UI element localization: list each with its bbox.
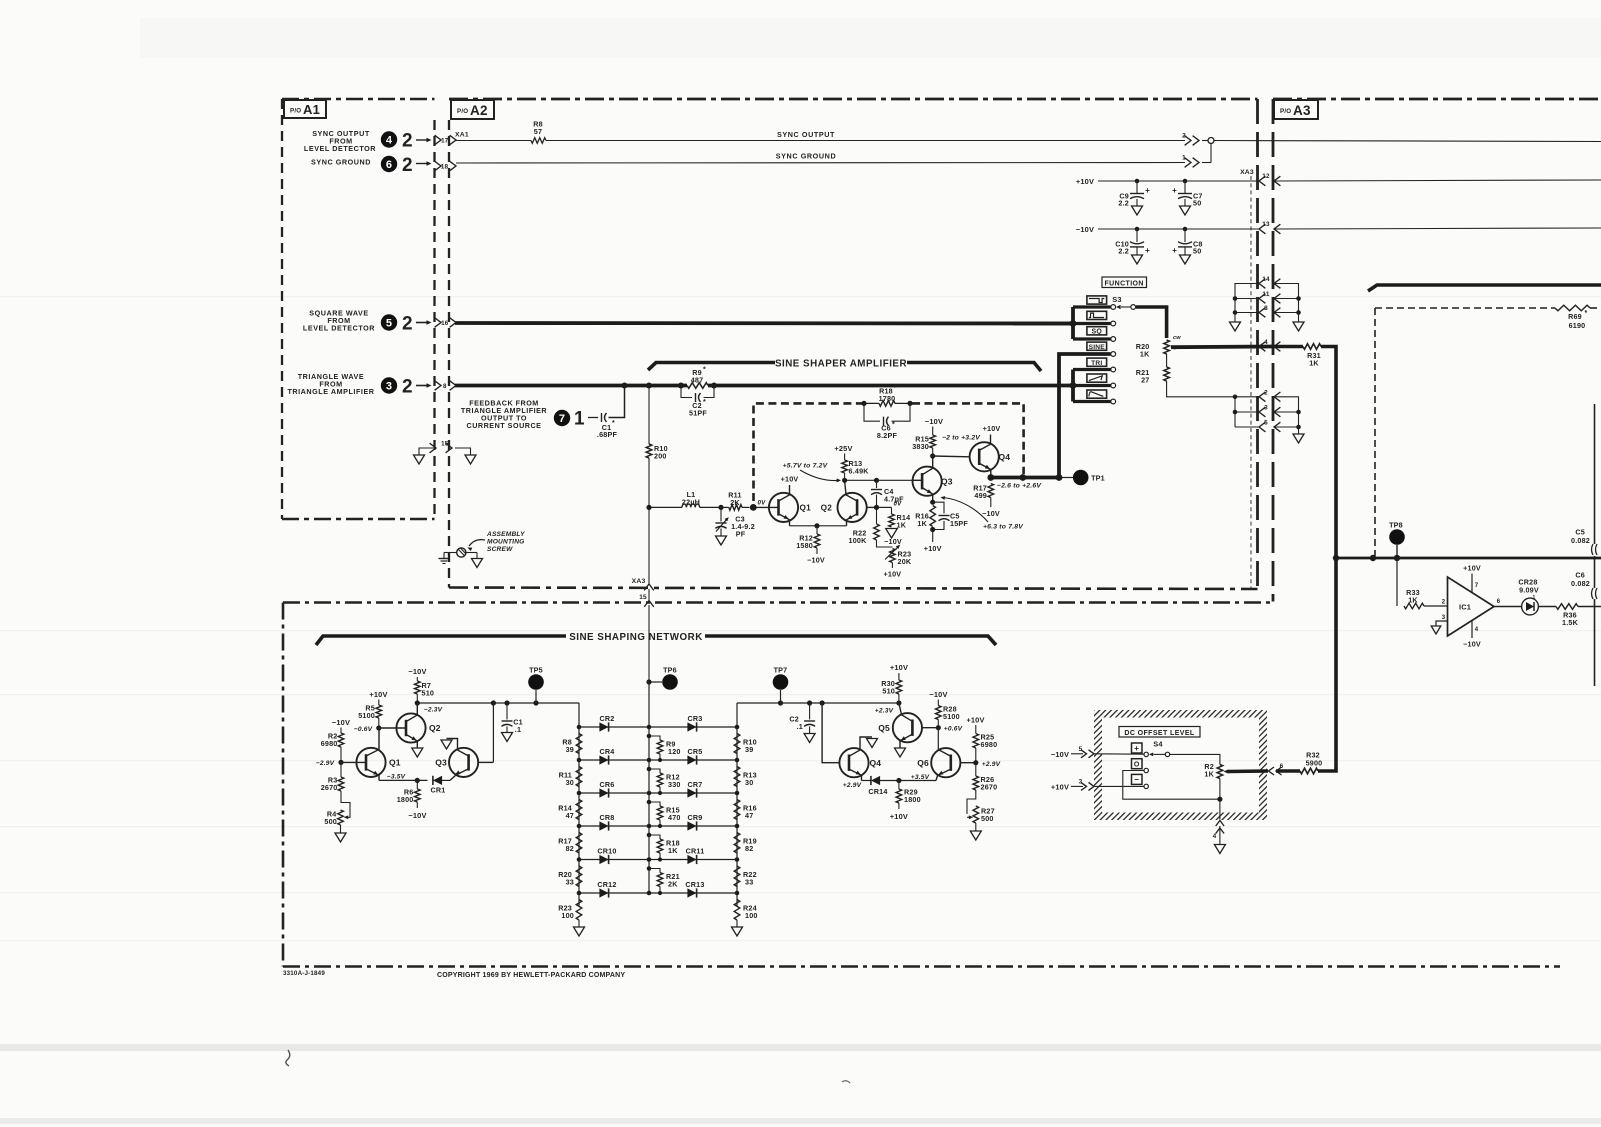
resistor R7 [415, 677, 435, 703]
svg-text:−10V: −10V [982, 509, 1000, 518]
wire ladder right column [736, 703, 738, 906]
resistor R26 [973, 763, 997, 792]
svg-text:SINE: SINE [1089, 344, 1106, 351]
svg-text:CR3: CR3 [688, 714, 703, 723]
wire ladder row 4 [577, 824, 740, 829]
wire square bus to contacts 1-3 [1013, 307, 1111, 339]
ground (pins14-11-8 right) [1293, 322, 1304, 331]
transistor Q3 (shaper) [913, 456, 953, 502]
wire sine bus to contact 4 [1059, 354, 1111, 478]
label S4 [1153, 740, 1163, 749]
svg-text:1K: 1K [917, 519, 927, 528]
big numeral 2 (square wave) [402, 314, 413, 335]
svg-text:TP6: TP6 [663, 666, 677, 675]
capacitor C6 (0.082, cut) [1571, 571, 1597, 600]
resistor R17 (ladder left) [558, 833, 582, 854]
switch S4 plus box [1132, 743, 1143, 753]
svg-text:5100: 5100 [358, 711, 375, 720]
svg-text:1800: 1800 [904, 795, 921, 804]
svg-text:−2 to +3.2V: −2 to +3.2V [942, 435, 981, 442]
svg-text:57: 57 [534, 127, 542, 136]
label +2.9V (Q6) [982, 761, 1001, 768]
ground (C9) [1132, 206, 1143, 215]
svg-text:+10V: +10V [1463, 564, 1481, 573]
connector pin 11 [1259, 291, 1280, 303]
svg-text:COPYRIGHT 1969 BY HEWLETT-PACK: COPYRIGHT 1969 BY HEWLETT-PACKARD COMPAN… [437, 972, 625, 979]
page-edge block border [1594, 404, 1596, 686]
svg-text:.68PF: .68PF [597, 430, 618, 439]
svg-text:4: 4 [1475, 627, 1479, 633]
wire ladder row 3 [577, 791, 740, 796]
diode CR9 [687, 813, 702, 831]
svg-text:CR11: CR11 [686, 847, 705, 856]
svg-text:+: + [1145, 186, 1150, 195]
svg-text:1K: 1K [1140, 350, 1150, 359]
svg-text:LEVEL DETECTOR: LEVEL DETECTOR [304, 144, 376, 153]
connector pin 8 [1259, 305, 1280, 317]
svg-text:+10V: +10V [781, 475, 799, 484]
diode CR7 [687, 780, 702, 798]
icon S3 position 4 (SINE) [1087, 342, 1107, 351]
contact S3-4 [1111, 352, 1116, 357]
svg-text:+: + [1172, 246, 1177, 255]
big numeral 2 (sync output) [402, 131, 413, 152]
capacitor C3 (variable) [715, 507, 754, 538]
flag 5 sheet-ref [381, 314, 397, 330]
svg-text:+5.7V to 7.2V: +5.7V to 7.2V [783, 463, 829, 470]
resistor R22 (ladder right) [734, 866, 757, 887]
resistor R14 (ladder left) [558, 800, 582, 821]
label 0V (Q2 base) [894, 501, 903, 508]
svg-text:11: 11 [1262, 291, 1269, 298]
svg-text:LEVEL DETECTOR: LEVEL DETECTOR [303, 324, 375, 333]
svg-text:4: 4 [386, 134, 393, 146]
wire pins14-11-8 right bracket [1274, 284, 1301, 323]
svg-text:1K: 1K [1309, 359, 1319, 368]
svg-text:+2.3V: +2.3V [875, 708, 894, 715]
svg-text:Q5: Q5 [878, 723, 890, 733]
svg-text:1K: 1K [1204, 770, 1214, 779]
wire triangle wave bus [455, 383, 1073, 389]
label -10V (S4 +) [1051, 750, 1069, 759]
label +10V (S4 -) [1051, 783, 1069, 792]
svg-text:33: 33 [745, 878, 753, 887]
diode CR8 [599, 813, 614, 831]
svg-text:0.082: 0.082 [1571, 579, 1590, 588]
wire Q1net collector [378, 727, 380, 729]
diode CR28 [1494, 578, 1556, 615]
svg-text:50: 50 [1193, 247, 1201, 256]
svg-text:Q3: Q3 [435, 758, 447, 768]
resistor R12 (ladder center) [647, 767, 681, 795]
resistor R13 (ladder right) [734, 767, 757, 788]
wire sync ground [456, 152, 1185, 164]
diode CR11 [686, 847, 705, 865]
contact S3-7 [1111, 399, 1116, 404]
label +10V (R25) [966, 716, 984, 725]
wire R16 to +10V [924, 527, 942, 553]
contact S3-5 [1111, 367, 1116, 372]
label +2.9V (Q4) [843, 782, 862, 789]
svg-text:2: 2 [1264, 389, 1268, 396]
svg-text:5100: 5100 [943, 712, 960, 721]
svg-text:P/O: P/O [457, 108, 468, 115]
svg-text:1: 1 [574, 409, 585, 430]
resistor R20 (ladder left) [558, 866, 582, 887]
wire ladder row 1 [577, 725, 740, 730]
resistor R2 (network) [321, 728, 344, 766]
svg-text:1800: 1800 [397, 795, 414, 804]
svg-text:2: 2 [402, 314, 413, 335]
wire pins2-3-5 right bracket [1274, 397, 1301, 434]
resistor R23 (adj) [877, 540, 912, 579]
capacitor C2 (51PF) [681, 386, 714, 418]
svg-text:+10V: +10V [1076, 177, 1094, 186]
capacitor C10 [1115, 229, 1150, 256]
svg-text:2K: 2K [730, 498, 740, 507]
contact S4 - [1144, 784, 1148, 788]
capacitor C6 (8.2PF) [864, 403, 910, 440]
capacitor C9 [1118, 181, 1150, 208]
svg-text:S4: S4 [1153, 740, 1163, 749]
icon S3 position 2 (pulse) [1087, 311, 1107, 319]
feedback path (dashed) [754, 403, 1024, 501]
resistor R9 (ladder center) [647, 734, 681, 762]
ground (pins2-3-5) [1293, 434, 1304, 443]
wire sync output to A3 [1214, 141, 1601, 142]
wire ladder center column [648, 682, 650, 893]
wire emitter row (network left) [379, 778, 428, 783]
wire ladder row 6 [577, 891, 740, 896]
svg-text:1K: 1K [1408, 596, 1418, 605]
diode CR6 [599, 780, 614, 798]
svg-text:120: 120 [668, 747, 681, 756]
op-amp IC1 [1442, 577, 1501, 636]
connector pin 15 (XA3) [632, 578, 654, 680]
capacitor C5 (0.082, cut) [1571, 528, 1597, 556]
resistor R5 [358, 700, 381, 731]
resistor R4 (adj) [324, 791, 350, 833]
svg-text:XA3: XA3 [1240, 169, 1254, 176]
svg-text:*: * [703, 399, 706, 406]
switch S4 zero box [1132, 759, 1143, 769]
svg-text:CR14: CR14 [868, 787, 887, 796]
svg-text:47: 47 [566, 811, 574, 820]
svg-text:1580: 1580 [796, 541, 813, 550]
switch S4 minus box [1132, 774, 1143, 784]
svg-text:+10V: +10V [890, 663, 908, 672]
wire flag4 to pin17 [416, 138, 432, 143]
svg-text:7: 7 [559, 413, 565, 425]
connector pin 14 [1259, 276, 1280, 288]
connector pin 17 [435, 135, 456, 145]
capacitor C8 [1172, 229, 1203, 256]
svg-text:CR13: CR13 [685, 880, 704, 889]
resistor R24 (ladder right bottom) [734, 900, 757, 928]
label -2.9V [316, 760, 335, 767]
svg-text:12: 12 [1262, 173, 1270, 180]
resistor R31 [1274, 344, 1321, 368]
svg-text:Q4: Q4 [999, 452, 1011, 462]
svg-text:1: 1 [1533, 595, 1536, 601]
svg-text:*: * [894, 385, 897, 392]
svg-text:CR2: CR2 [600, 714, 615, 723]
svg-text:Q2: Q2 [429, 723, 441, 733]
svg-text:S3: S3 [1112, 295, 1121, 304]
svg-text:3: 3 [1264, 405, 1268, 412]
wire R21 to pin2 bracket [1167, 381, 1235, 397]
transistor Q6 (network) [917, 748, 976, 780]
label +10V rail [1076, 177, 1094, 186]
svg-text:FUNCTION: FUNCTION [1105, 280, 1144, 287]
resistor R14 [877, 507, 911, 529]
svg-text:51PF: 51PF [689, 409, 707, 418]
svg-text:SINE SHAPING NETWORK: SINE SHAPING NETWORK [569, 632, 703, 643]
wiper S3 [1116, 305, 1136, 310]
big numeral 2 (sync ground) [402, 155, 413, 176]
svg-text:100: 100 [561, 911, 574, 920]
wire ladder row 5 [577, 857, 740, 862]
resistor R33 [1404, 588, 1448, 609]
label +3.5V [911, 774, 930, 781]
resistor R9 [687, 367, 708, 389]
resistor R69 [1555, 305, 1590, 330]
svg-text:22µH: 22µH [682, 497, 700, 506]
label sync output from level detector [304, 129, 376, 153]
svg-text:3: 3 [386, 380, 392, 392]
svg-text:8: 8 [1264, 305, 1268, 312]
svg-text:+0.6V: +0.6V [944, 726, 963, 733]
icon S3 position 6 (ramp up) [1087, 374, 1107, 382]
svg-text:CR6: CR6 [600, 780, 615, 789]
resistor R19 (ladder right) [734, 833, 757, 854]
transistor Q4 (network) [822, 703, 881, 781]
svg-text:Q4: Q4 [870, 758, 882, 768]
resistor R30 [881, 673, 901, 703]
svg-text:TP8: TP8 [1389, 521, 1403, 530]
label P/O A1 [284, 100, 326, 118]
svg-text:SYNC OUTPUT: SYNC OUTPUT [777, 130, 835, 139]
svg-text:Q1: Q1 [389, 758, 401, 768]
wire IC1 pin4 -10V [1463, 621, 1481, 649]
svg-text:CR8: CR8 [600, 813, 615, 822]
svg-text:−0.6V: −0.6V [354, 726, 373, 733]
wire S4 O to R2 bottom [1123, 771, 1220, 800]
wire pin13 to right edge [1274, 228, 1601, 229]
svg-text:R69: R69 [1568, 312, 1582, 321]
svg-text:2: 2 [402, 155, 413, 176]
svg-text:1780: 1780 [879, 394, 896, 403]
svg-text:SYNC GROUND: SYNC GROUND [776, 152, 837, 161]
resistor R21 [1136, 354, 1170, 385]
svg-text:CR10: CR10 [597, 847, 616, 856]
resistor R22 [849, 507, 880, 545]
connector pin 3 (S4) [1071, 779, 1144, 791]
wire IC1 pin7 +10V [1463, 564, 1481, 593]
label feedback from triangle amplifier [461, 399, 548, 431]
wire +10V rail [1098, 179, 1259, 184]
svg-text:TRIANGLE AMPLIFIER: TRIANGLE AMPLIFIER [287, 387, 374, 396]
label square wave from level detector [303, 309, 375, 333]
connector pin 13 [1259, 221, 1280, 234]
wire sync output [546, 130, 1185, 141]
svg-text:Q1: Q1 [800, 504, 812, 513]
label +5.7V to 7.2V [783, 463, 841, 483]
connector pin 16 [435, 318, 456, 328]
svg-text:+10V: +10V [966, 716, 984, 725]
svg-text:13: 13 [1262, 221, 1270, 228]
svg-text:P/O: P/O [1280, 108, 1291, 115]
svg-text:O: O [1134, 762, 1140, 769]
svg-text:39: 39 [745, 745, 753, 754]
connector pin 5 [1259, 420, 1280, 432]
resistor R36 [1556, 604, 1601, 627]
label sync ground [311, 158, 371, 167]
wire ladder row 2 [577, 758, 740, 763]
connector pin 8 (XA1) [435, 381, 456, 391]
wire pin12 to right edge [1274, 180, 1601, 181]
svg-text:2670: 2670 [321, 783, 338, 792]
svg-text:100: 100 [745, 911, 758, 920]
icon S3 position 5 (TRI) [1087, 358, 1107, 367]
svg-text:−10V: −10V [1051, 750, 1069, 759]
svg-text:+10V: +10V [884, 570, 902, 579]
svg-text:−2.6 to +2.6V: −2.6 to +2.6V [997, 483, 1042, 490]
svg-text:6.49K: 6.49K [849, 467, 870, 476]
ground (C7) [1180, 206, 1191, 215]
svg-text:0V: 0V [758, 500, 767, 507]
feedback box (right, dashed) [1375, 308, 1601, 556]
svg-text:82: 82 [745, 844, 753, 853]
svg-text:*: * [892, 422, 895, 429]
wiper S4 [1149, 752, 1170, 756]
svg-text:510: 510 [882, 687, 895, 696]
svg-text:CR7: CR7 [688, 780, 703, 789]
svg-text:6: 6 [1280, 763, 1284, 770]
diode CR3 [687, 714, 702, 732]
resistor R16 [915, 500, 935, 528]
wire square wave bus [455, 321, 1073, 325]
svg-text:PF: PF [736, 530, 746, 539]
wire TP8 to R33 [1396, 558, 1398, 606]
svg-text:17: 17 [441, 137, 449, 144]
svg-text:TP5: TP5 [529, 666, 543, 675]
transistor Q1 (network) [341, 728, 401, 780]
svg-text:+10V: +10V [890, 812, 908, 821]
ground (ladder left) [574, 927, 585, 936]
contact S3-2 [1111, 321, 1116, 326]
resistor R8 (ladder left) [562, 734, 581, 755]
wire ladder left column [578, 727, 580, 906]
svg-text:6190: 6190 [1569, 321, 1586, 330]
wire triangle bus to contacts 5-7 [1070, 370, 1111, 402]
svg-text:+10V: +10V [983, 424, 1001, 433]
svg-text:−10V: −10V [1463, 640, 1481, 649]
connector pin 4 [1259, 339, 1280, 351]
svg-text:18: 18 [441, 164, 449, 171]
label -2 to +3.2V [942, 435, 981, 442]
icon S3 position 3 (SQ) [1087, 327, 1107, 336]
svg-text:7: 7 [1475, 583, 1479, 589]
svg-text:SINE SHAPER AMPLIFIER: SINE SHAPER AMPLIFIER [775, 359, 907, 370]
connector pin 15 side grounds [414, 448, 477, 464]
svg-text:20K: 20K [898, 557, 912, 566]
svg-text:15: 15 [639, 594, 647, 601]
svg-text:1K: 1K [668, 846, 678, 855]
svg-text:5: 5 [386, 317, 392, 329]
diode CR1 [431, 776, 450, 795]
label -0.6V [354, 726, 373, 733]
svg-text:3830: 3830 [912, 442, 929, 451]
label +10V (R30) [890, 663, 908, 672]
capacitor C5 (15PF) [933, 502, 969, 529]
svg-text:6: 6 [386, 159, 392, 171]
label S3 [1112, 295, 1121, 304]
svg-text:TP1: TP1 [1091, 474, 1105, 483]
ground (IC1 pin3) [1431, 621, 1447, 634]
resistor R15 (ladder center) [647, 800, 681, 828]
label FUNCTION [1102, 277, 1147, 288]
ground (pins14-11-8 left) [1230, 322, 1241, 331]
svg-text:+: + [1172, 186, 1177, 195]
label -10V (R2) [332, 718, 350, 727]
label DC OFFSET LEVEL [1119, 727, 1200, 738]
contact S4 + [1144, 752, 1148, 756]
svg-text:−10V: −10V [408, 811, 426, 820]
wire L1 to R11 [700, 505, 724, 510]
svg-text:30: 30 [566, 778, 574, 787]
ground (ladder right) [732, 927, 743, 936]
svg-text:6980: 6980 [321, 739, 338, 748]
svg-text:200: 200 [654, 452, 667, 461]
svg-text:CR5: CR5 [688, 747, 703, 756]
connector pin 15 (XA1 side) [430, 441, 452, 453]
resistor R8 [455, 120, 546, 144]
svg-text:−10V: −10V [929, 690, 947, 699]
wire Q4-CR14 row [862, 778, 937, 783]
contact S3-6 [1111, 383, 1116, 388]
icon S3 position 1 (square/pulse) [1087, 296, 1107, 304]
transistor Q5 (network) [878, 703, 938, 748]
resistor R25 [973, 725, 997, 765]
svg-text:14: 14 [1262, 276, 1270, 283]
svg-text:−10V: −10V [925, 417, 943, 426]
svg-text:2: 2 [402, 377, 413, 398]
sync output jack [1202, 138, 1214, 163]
big numeral 1 (feedback) [574, 409, 585, 430]
label -2.6 to +2.6V [997, 483, 1042, 490]
resistor R18 [861, 385, 912, 406]
wire pin4 to R20 wiper [1171, 345, 1274, 350]
connector pin 12 [1259, 173, 1280, 186]
svg-text:50: 50 [1193, 199, 1201, 208]
resistor R17 [973, 484, 1000, 519]
diode CR10 [597, 847, 616, 865]
wire -10V rail [1098, 227, 1259, 232]
ground (C3) [716, 536, 727, 545]
svg-text:SCREW: SCREW [487, 546, 513, 553]
svg-text:100K: 100K [849, 536, 868, 545]
connector pin 18 [435, 161, 456, 171]
label +0.6V [944, 726, 963, 733]
svg-text:+3.5V: +3.5V [911, 774, 930, 781]
svg-text:+10V: +10V [369, 690, 387, 699]
svg-text:CR1: CR1 [431, 786, 446, 795]
label +2.3V [875, 708, 894, 715]
svg-text:3310A-J-1849: 3310A-J-1849 [283, 970, 325, 977]
diode CR5 [687, 747, 702, 765]
svg-text:9.09V: 9.09V [1519, 586, 1539, 595]
